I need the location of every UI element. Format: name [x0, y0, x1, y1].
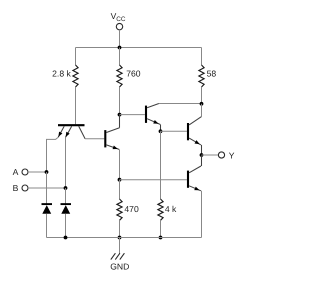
resistor R5 4k	[158, 199, 163, 220]
junction input A / D1	[45, 170, 49, 174]
wire node to Q2 collector	[119, 115, 121, 128]
ground symbol	[111, 253, 125, 259]
wire R4 to ground rail	[119, 220, 121, 237]
transistor Q4 base bar	[187, 123, 189, 140]
svg-text:VCC: VCC	[111, 11, 126, 23]
svg-text:4 k: 4 k	[165, 204, 177, 214]
wire A node to D1	[46, 172, 48, 204]
svg-text:58: 58	[207, 69, 217, 79]
transistor Q2 emitter arrow	[113, 146, 118, 150]
wire ground rail	[47, 237, 202, 239]
wire B node to D2	[65, 188, 67, 204]
wire output to terminal Y	[202, 154, 219, 156]
transistor Q2 emitter	[106, 145, 119, 150]
wire Q2 emitter down	[119, 149, 121, 179]
junction ground rail / D2	[64, 236, 68, 240]
terminal output Y	[218, 152, 224, 158]
terminal Vcc	[116, 23, 122, 29]
wire node to Q4 base	[161, 130, 187, 132]
junction ground rail / R5	[159, 236, 163, 240]
wire Q1 emitter-1 to input A	[47, 137, 59, 172]
wire rail to R3	[201, 48, 203, 66]
junction ground rail / R4	[118, 236, 122, 240]
transistor Q1 emitter 2	[66, 126, 72, 137]
transistor Q1 base bar	[58, 124, 85, 126]
wire R5 to ground rail	[160, 220, 162, 237]
transistor Q1 collector	[79, 126, 85, 139]
wire Q4 emitter to output node	[201, 145, 203, 155]
svg-text:470: 470	[124, 204, 139, 214]
wire Q3 emitter down	[160, 124, 162, 131]
wire R2 to Q2 collector node	[119, 87, 121, 115]
wire rail to R1	[75, 48, 77, 66]
transistor Q2 base bar	[104, 130, 106, 147]
transistor Q3 emitter	[147, 119, 160, 125]
wire ground stub	[119, 238, 121, 254]
diode D1	[42, 204, 53, 214]
transistor Q5 base bar	[187, 171, 189, 188]
wire Q2 collector to Q3 base	[120, 114, 145, 116]
transistor Q4 collector	[189, 117, 201, 125]
transistor Q5 emitter	[189, 186, 201, 191]
junction Q2 collector / Q3 base	[118, 113, 122, 117]
transistor Q3 emitter arrow	[153, 120, 158, 124]
transistor Q4 emitter	[189, 138, 201, 145]
transistor Q4 emitter arrow	[195, 140, 200, 144]
wire Vcc rail	[76, 47, 202, 49]
wire D2 to ground rail	[65, 214, 67, 238]
wire Vcc stub	[119, 30, 121, 48]
wire Q5 emitter to ground rail	[201, 191, 203, 238]
wire node to R4	[119, 180, 121, 199]
transistor Q3 collector	[147, 104, 159, 108]
transistor Q5 emitter arrow	[194, 187, 199, 191]
resistor R2 760	[117, 65, 122, 87]
wire Q5 collector to output node	[201, 155, 203, 166]
wire Q2 emitter node to Q5 base	[120, 179, 187, 181]
transistor Q2 collector	[106, 128, 119, 133]
wire Q1 collector to Q2 base	[85, 138, 104, 140]
junction Q2 emitter / R4 / Q5 base	[118, 178, 122, 182]
transistor Q1 emitter-1 arrow	[58, 132, 62, 137]
svg-text:2.8 k: 2.8 k	[52, 68, 71, 78]
terminal input B	[22, 185, 28, 191]
wire R3 to Q3 collector node	[201, 87, 203, 104]
svg-text:Y: Y	[229, 150, 235, 160]
resistor R4 470	[117, 199, 122, 220]
wire rail to R2	[119, 48, 121, 66]
junction Q3 emitter / Q4 base / R5	[159, 129, 163, 133]
diode D2	[61, 204, 72, 214]
wire input A	[28, 171, 47, 173]
svg-text:GND: GND	[110, 261, 129, 271]
svg-text:B: B	[13, 183, 19, 193]
terminal input A	[22, 169, 28, 175]
transistor Q5 collector	[189, 166, 201, 173]
junction Vcc rail / R2 branch	[118, 46, 122, 50]
svg-text:760: 760	[126, 68, 141, 78]
wire Q1 emitter-2 to input B	[65, 137, 67, 188]
transistor Q1 emitter-2 arrow	[66, 132, 70, 137]
resistor R3 58	[199, 65, 204, 87]
junction R3 / Q3 collector / Q4 collector	[200, 102, 204, 106]
wire node to R5	[160, 131, 162, 199]
transistor Q3 base bar	[145, 106, 147, 123]
resistor R1 2.8k	[73, 65, 78, 87]
wire node to Q4 collector	[201, 104, 203, 117]
svg-text:A: A	[13, 167, 19, 177]
junction output node Y	[200, 153, 204, 157]
wire input B	[28, 187, 66, 189]
junction input B / D2	[64, 186, 68, 190]
wire Q3 collector to R3 node	[159, 103, 202, 105]
wire D1 to ground rail	[46, 214, 48, 238]
wire R1 to Q1 base	[75, 87, 77, 124]
transistor Q1 emitter 1	[58, 126, 64, 137]
